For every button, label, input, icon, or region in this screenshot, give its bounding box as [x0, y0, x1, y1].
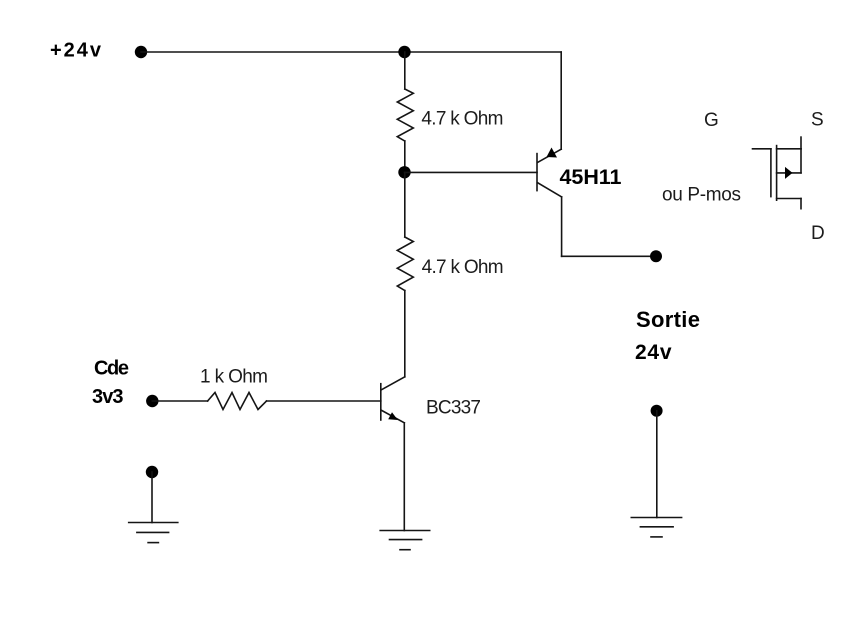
mosfet M1 body connection — [777, 172, 801, 174]
wire R2 bottom to Q2 collector — [404, 291, 406, 377]
mosfet M1 source connection — [777, 148, 801, 150]
transistor Q2 BC337 base bar — [380, 384, 382, 420]
svg-text:BC337: BC337 — [426, 398, 481, 419]
svg-text:Sortie: Sortie — [636, 307, 700, 332]
label BC337 — [426, 398, 481, 419]
value label R2 4.7 k Ohm — [422, 257, 504, 278]
node Sortie terminal dot — [650, 250, 662, 262]
svg-text:4.7 k Ohm: 4.7 k Ohm — [421, 109, 503, 130]
junction J1 (rail / R1 top) — [398, 46, 410, 58]
svg-text:D: D — [811, 223, 825, 244]
wire Q2 emitter to ground — [403, 423, 405, 531]
transistor Q2 emitter diagonal — [382, 411, 405, 423]
mosfet M1 body arrow — [785, 167, 793, 179]
mosfet M1 drain connection — [777, 198, 801, 200]
wire Q1 emitter to rail — [560, 52, 562, 149]
ground GND2 (center) — [380, 531, 430, 550]
wire collector to Sortie node — [562, 255, 656, 257]
pin label S — [811, 110, 824, 131]
wire R1 bottom to node B — [404, 141, 406, 172]
mosfet M1 channel bar — [776, 146, 778, 201]
net label 24v — [635, 341, 672, 364]
svg-text:Cde: Cde — [94, 358, 129, 380]
net label 3v3 — [92, 386, 124, 408]
junction node B — [398, 166, 410, 178]
wire node B to R2 top — [404, 172, 406, 237]
wire Cde ground dot to ground — [151, 472, 153, 523]
svg-text:G: G — [704, 110, 719, 131]
mosfet M1 gate bar — [770, 149, 772, 197]
wire node B to Q1 base — [405, 171, 538, 173]
svg-text:+24v: +24v — [50, 40, 102, 62]
resistor R3 1k — [208, 393, 267, 410]
transistor Q1 collector diagonal — [538, 183, 562, 197]
mosfet M1 drain lead down — [800, 199, 802, 209]
mosfet M1 source lead up — [800, 137, 802, 149]
transistor Q1 emitter diagonal — [538, 149, 561, 162]
mosfet M1 body tie vertical — [800, 149, 802, 173]
wire R3 to Q2 base — [267, 400, 381, 402]
net label Cde — [94, 358, 129, 380]
value label R1 4.7 k Ohm — [421, 109, 503, 130]
svg-text:4.7 k Ohm: 4.7 k Ohm — [422, 257, 504, 278]
pin label G — [704, 110, 719, 131]
mosfet M1 gate lead — [753, 148, 771, 150]
resistor R2 — [397, 237, 413, 291]
wire Q1 collector down — [561, 197, 563, 256]
svg-text:S: S — [811, 110, 824, 131]
node output ground-side dot — [651, 405, 663, 417]
wire output dot to ground — [656, 411, 658, 518]
label 45H11 — [560, 165, 622, 189]
value label R3 1 k Ohm — [200, 367, 268, 388]
svg-text:24v: 24v — [635, 341, 672, 364]
ground GND1 (left) — [129, 523, 178, 543]
wire +24v rail — [141, 51, 561, 53]
svg-text:ou P-mos: ou P-mos — [662, 185, 741, 206]
svg-text:1 k Ohm: 1 k Ohm — [200, 367, 268, 388]
transistor Q1 45H11 base bar — [536, 154, 538, 191]
resistor R1 — [397, 89, 413, 141]
node +24v terminal dot — [135, 46, 147, 58]
svg-text:45H11: 45H11 — [560, 165, 622, 189]
transistor Q2 collector diagonal — [382, 377, 405, 390]
net label +24v — [50, 40, 102, 62]
svg-text:3v3: 3v3 — [92, 386, 124, 408]
pin label D — [811, 223, 825, 244]
wire J1 to R1 top — [404, 52, 406, 89]
ground GND3 (right) — [631, 518, 681, 537]
node Cde ground-side dot — [146, 466, 158, 478]
net label Sortie — [636, 307, 700, 332]
transistor Q1 emitter arrow — [547, 148, 558, 158]
transistor Q2 emitter arrow — [388, 412, 398, 420]
label ou P-mos — [662, 185, 741, 206]
wire Cde dot to R3 — [152, 400, 207, 402]
node Cde terminal dot — [146, 395, 158, 407]
